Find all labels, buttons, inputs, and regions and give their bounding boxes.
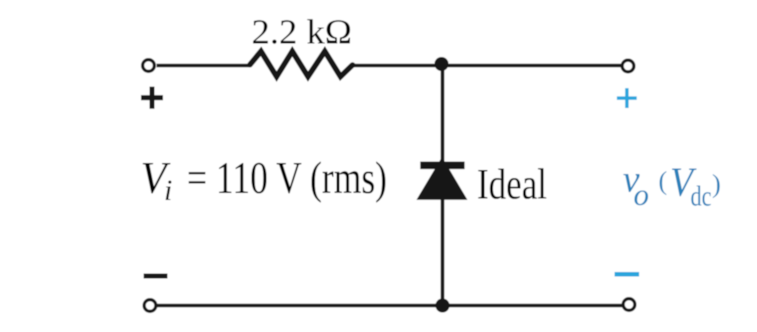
svg-text:Ideal: Ideal — [477, 161, 547, 208]
svg-text:i: i — [164, 174, 172, 207]
svg-text:2.2 kΩ: 2.2 kΩ — [252, 13, 353, 52]
svg-text:= 110 V (rms): = 110 V (rms) — [187, 152, 387, 203]
svg-text:): ) — [712, 169, 721, 199]
svg-text:o: o — [634, 177, 650, 212]
svg-text:(: ( — [659, 167, 668, 196]
svg-text:dc: dc — [691, 181, 712, 213]
